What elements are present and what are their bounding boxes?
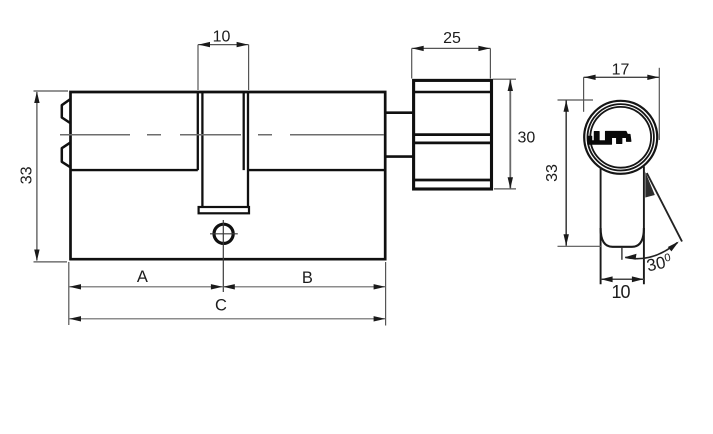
svg-text:A: A [137, 268, 148, 286]
svg-text:33: 33 [544, 164, 561, 182]
cam slot left outer wall [197, 92, 199, 170]
dim A-B right extension below body [385, 262, 387, 326]
svg-text:33: 33 [19, 166, 36, 184]
cam slot right outer wall [247, 92, 249, 207]
dim 10 top line [198, 44, 249, 46]
dim A left arrow [69, 284, 81, 289]
dim 30 knob top arrow [508, 80, 513, 92]
svg-text:17: 17 [612, 62, 630, 79]
screw hole horizontal crosshair [210, 233, 238, 235]
cylinder body outline (side view) [71, 92, 386, 259]
dim B right arrow [374, 284, 386, 289]
dim 25 left extension [411, 48, 413, 78]
dim 33 right bottom arrow [564, 234, 569, 246]
dim 17 right extension [658, 68, 660, 140]
dim 10 top right extension [248, 45, 250, 90]
30 degree arc right arrow [668, 242, 679, 252]
dim 30 knob bottom extension [494, 188, 516, 190]
dim 17 right arrow [647, 75, 659, 80]
svg-text:30: 30 [518, 129, 536, 146]
profile body right wall [643, 167, 645, 285]
svg-text:10: 10 [213, 28, 231, 45]
dim B line [223, 286, 386, 288]
dim 10 bottom line [601, 278, 644, 280]
fixing screw hole [214, 224, 233, 243]
svg-text:B: B [302, 269, 313, 287]
body horizontal parting line left segment [71, 169, 198, 171]
dim C left arrow [69, 316, 81, 321]
dim 10 bottom right arrow [632, 276, 644, 282]
dim 30 knob top extension [493, 78, 516, 80]
dim A-B left extension below body [68, 262, 70, 325]
face view outer ring [584, 101, 657, 174]
angle vertex tick [621, 247, 623, 260]
knob middle groove upper line [414, 133, 492, 136]
dim 10 top left arrow [198, 42, 210, 47]
cam bottom block [199, 207, 249, 213]
knob upper groove [414, 91, 492, 93]
cam left edge [201, 92, 203, 207]
svg-text:10: 10 [611, 282, 630, 302]
dim 25 left arrow [412, 46, 424, 51]
face view inner ring [590, 107, 651, 168]
dim C line [69, 318, 386, 320]
dim 33 right top arrow [564, 100, 569, 112]
dim 30 knob line [509, 80, 511, 189]
dim 33 left extension bottom [34, 261, 68, 263]
connector neck top edge [385, 111, 413, 114]
filled wedge at circle [645, 172, 655, 198]
dim 10 top left extension [197, 45, 199, 90]
dim 33 right extension bottom [558, 245, 602, 247]
keyway profile silhouette [588, 131, 631, 144]
dim 17 left extension [583, 77, 585, 112]
left end pin bump lower [62, 142, 71, 167]
dim 10 bottom left arrow [601, 276, 613, 282]
body horizontal parting line right segment [247, 169, 385, 171]
dim 33 left top arrow [34, 92, 39, 104]
dim A right arrow [211, 284, 223, 289]
svg-text:25: 25 [443, 30, 461, 47]
dim A line [69, 286, 223, 288]
dim 25 right arrow [478, 46, 490, 51]
dim 33 right extension top [558, 99, 594, 101]
dim 17 line [584, 76, 660, 78]
knob lower groove [414, 179, 492, 182]
tangent slant line [647, 173, 682, 242]
30 degree arc left arrow [625, 254, 637, 260]
knob middle groove lower line [414, 142, 492, 145]
thumbturn knob outline [414, 80, 492, 189]
profile body left wall [600, 168, 602, 285]
dim 30 knob bottom arrow [508, 177, 513, 189]
centerline (dash-dot axis) [60, 134, 384, 136]
cam right edge [243, 92, 245, 170]
dim 25 right extension [489, 48, 491, 78]
dim 10 top right arrow [237, 42, 249, 47]
dim C right arrow [374, 316, 386, 321]
dim 33 left line [36, 92, 38, 261]
svg-text:C: C [215, 296, 227, 314]
dim B left arrow [223, 284, 235, 289]
dim 33 left bottom arrow [34, 250, 39, 262]
left end pin bump upper [62, 99, 71, 123]
dim 33 right line [565, 100, 567, 246]
connector neck bottom edge [385, 155, 413, 158]
screw hole vertical crosshair / extension to A-B split [222, 220, 224, 292]
dim 33 left extension top [34, 90, 69, 92]
face view middle ring [588, 104, 654, 170]
profile body rounded bottom [601, 228, 644, 247]
dim 25 line [412, 47, 491, 49]
dim 17 left arrow [584, 75, 596, 80]
30 degree arc [625, 243, 677, 259]
